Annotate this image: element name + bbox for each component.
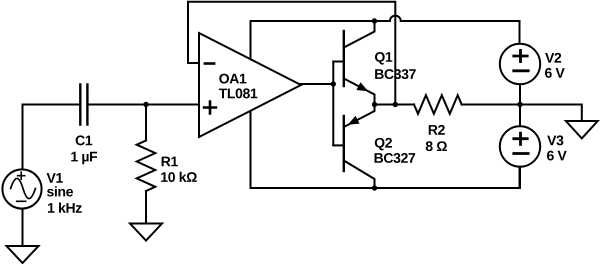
node: Q1 collector on V+ rail [372,18,377,23]
wire: emitter node to R2 [375,104,415,106]
node: feedback tap on output wire [393,102,398,107]
wire: mid node to V3 top [519,105,521,127]
transistor Q2 BC327 (PNP) [333,105,374,189]
voltage source V1 [2,169,41,208]
op-amp V- power pin [250,111,252,188]
wire: base link vertical [332,62,334,146]
wire: V1 bottom lead [22,209,24,246]
label OA1 TL081 [219,74,258,99]
wire: V+ rail with hop over feedback [251,16,520,44]
ground (right, supply midpoint) [566,121,598,138]
wire: feedback from inverting input over the top to output node [188,2,395,105]
wire: C1 to op-amp noninverting input [87,104,199,106]
label C1 1uF [71,135,97,164]
wire: V2 bottom to mid node [519,84,521,104]
label V2 6V [545,53,565,78]
wire: V- rail [251,167,520,188]
label Q2 BC327 [375,138,416,163]
wire: V1 top lead to C1 [23,105,81,171]
resistor R1 [137,105,156,224]
node: output/base junction [331,81,336,86]
voltage source V3 [500,126,540,166]
label V1 sine 1 kHz [47,173,82,213]
node: emitter output junction [372,102,377,107]
resistor R2 [414,95,520,114]
label R2 8 Ohm [426,125,447,151]
op-amp OA1 triangle with input signs [199,33,301,137]
wire: V3 bottom to V- rail [519,167,521,188]
capacitor C1 [80,85,87,125]
voltage source V2 [500,44,540,84]
wire: op-amp output to base node [301,83,333,85]
op-amp V+ power pin [250,21,252,59]
label R1 10 kOhm [161,157,197,182]
ground (below R1) [130,224,162,241]
ground (below V1) [7,246,39,263]
wire: mid node to right ground [520,105,582,122]
node: Q2 collector on V- rail [372,185,377,190]
label V3 6V [547,135,567,160]
node: C1/R1/op-amp junction [143,102,148,107]
label Q1 BC337 [375,52,416,79]
transistor Q1 BC337 (NPN) [333,21,374,105]
node: supply midpoint [517,102,522,107]
